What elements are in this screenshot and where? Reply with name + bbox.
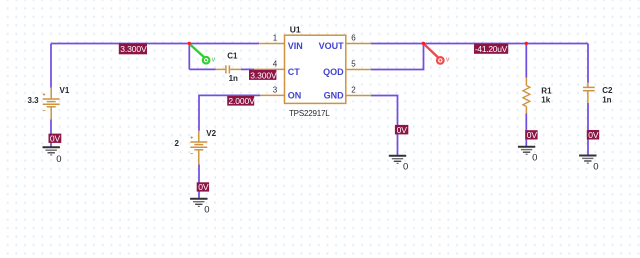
voltage probe (green)	[190, 45, 215, 64]
svg-text:0V: 0V	[50, 133, 61, 143]
svg-text:C1: C1	[227, 51, 238, 60]
ground under R1	[518, 147, 537, 164]
wire junction C down to R1	[525, 44, 527, 78]
svg-text:0V: 0V	[198, 182, 209, 192]
resistor R1	[523, 78, 530, 114]
wire V1 bottom to ground	[50, 120, 52, 148]
wire V1 top vertical	[50, 44, 52, 88]
wire QOD to VOUT net	[371, 44, 424, 70]
svg-text:2.000V: 2.000V	[228, 96, 255, 106]
svg-text:C2: C2	[602, 86, 613, 95]
svg-text:1: 1	[273, 33, 278, 42]
svg-text:1n: 1n	[229, 74, 238, 83]
ground under C2	[579, 156, 598, 173]
wire VOUT net down to C2	[587, 44, 589, 83]
svg-text:3: 3	[273, 85, 278, 94]
net label 3.300V (CT net)	[249, 70, 277, 80]
svg-text:QOD: QOD	[323, 67, 344, 77]
net label 0V (V2 ground)	[197, 182, 209, 192]
junction node C (VOUT net at R1)	[525, 42, 528, 45]
svg-text:GND: GND	[324, 91, 345, 101]
capacitor C2	[583, 83, 595, 104]
svg-text:3.300V: 3.300V	[250, 70, 277, 80]
svg-text:2: 2	[351, 85, 356, 94]
svg-text:-41.20uV: -41.20uV	[475, 44, 508, 54]
svg-text:V1: V1	[60, 86, 70, 95]
svg-text:1n: 1n	[602, 95, 611, 104]
svg-text:0V: 0V	[397, 125, 408, 135]
svg-text:ON: ON	[288, 91, 302, 101]
svg-text:2: 2	[175, 139, 180, 148]
wire V2 bottom to ground	[198, 165, 200, 200]
pin 2 stub GND	[346, 95, 371, 97]
net label -41.20uV (VOUT net)	[474, 44, 508, 55]
svg-text:0: 0	[593, 161, 598, 172]
net label 0V (R1 ground)	[525, 130, 537, 140]
net label 0V (V1 ground)	[49, 133, 62, 143]
battery V2	[190, 131, 207, 165]
net label 0V (C2 ground)	[587, 130, 599, 140]
wire C1 to CT label	[241, 68, 254, 70]
voltage probe (red)	[425, 45, 450, 64]
pin 5 stub QOD	[346, 69, 371, 71]
wire GND pin to ground	[371, 96, 398, 157]
net label 3.300V (VIN net)	[119, 43, 147, 54]
pin 6 stub VOUT	[346, 43, 371, 45]
svg-text:0: 0	[532, 153, 537, 164]
wire R1 bottom to ground	[525, 114, 527, 148]
svg-text:4: 4	[273, 59, 278, 68]
svg-text:R1: R1	[541, 86, 552, 95]
svg-text:v: v	[446, 57, 450, 64]
svg-text:0V: 0V	[527, 130, 538, 140]
wire junction A down to CT branch	[188, 44, 190, 70]
wire C2 bottom to ground	[587, 103, 589, 156]
junction node A (VIN net)	[188, 42, 191, 45]
battery V1	[43, 88, 60, 120]
capacitor C1	[216, 65, 242, 73]
svg-text:0: 0	[403, 162, 408, 173]
ground under U1 GND pin	[389, 156, 408, 173]
svg-text:3.300V: 3.300V	[120, 44, 147, 54]
svg-text:V2: V2	[206, 129, 216, 138]
net label 2.000V (ON net)	[227, 96, 255, 106]
svg-text:TPS22917L: TPS22917L	[289, 109, 330, 118]
svg-text:VOUT: VOUT	[319, 41, 345, 51]
svg-text:0: 0	[56, 154, 61, 165]
junction node B (VOUT net at probe)	[422, 42, 425, 45]
svg-text:3.3: 3.3	[28, 96, 40, 105]
wire V2 top to ON pin	[199, 95, 260, 130]
op IC U1 TPS22917L body	[285, 35, 346, 103]
pin 3 stub ON	[260, 94, 285, 96]
pin 4 stub CT	[254, 68, 285, 70]
svg-text:1k: 1k	[541, 95, 550, 104]
wire top net from V1 to U1 pin 1	[51, 43, 260, 45]
pin 1 stub VIN	[260, 43, 285, 45]
svg-text:0V: 0V	[588, 130, 599, 140]
svg-text:VIN: VIN	[288, 41, 303, 51]
wire CT branch horizontal to C1	[189, 68, 215, 70]
svg-text:5: 5	[351, 59, 356, 68]
svg-text:0: 0	[204, 205, 209, 216]
svg-text:U1: U1	[290, 24, 301, 34]
ground under V1	[43, 147, 62, 165]
net label 0V (U1 ground)	[395, 125, 408, 135]
svg-text:CT: CT	[288, 67, 300, 77]
svg-text:6: 6	[351, 33, 356, 42]
ground under V2	[190, 199, 209, 216]
svg-text:v: v	[212, 57, 216, 64]
wire VOUT net horizontal	[371, 43, 588, 45]
